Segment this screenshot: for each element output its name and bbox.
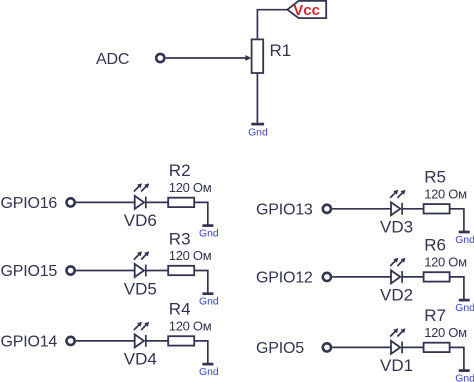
wire R6 to ground (450, 277, 464, 300)
svg-text:R2: R2 (169, 161, 191, 180)
svg-text:R7: R7 (424, 306, 446, 325)
resistor R2 (168, 198, 194, 207)
terminal GPIO13 (323, 205, 331, 213)
svg-text:GPIO14: GPIO14 (1, 334, 58, 351)
svg-text:VD6: VD6 (124, 211, 157, 230)
svg-text:120 Ом: 120 Ом (169, 248, 212, 263)
power flag Vcc (287, 1, 326, 18)
wire GPIO13 to VD3 (332, 208, 391, 210)
wire ADC terminal to R1 wiper (166, 57, 247, 59)
svg-text:ADC: ADC (96, 51, 129, 68)
wire GPIO15 to VD5 (76, 270, 135, 272)
ground for R4 (202, 363, 213, 366)
wire VD2 to R6 (402, 276, 424, 278)
svg-text:120 Ом: 120 Ом (169, 319, 212, 334)
svg-text:GPIO13: GPIO13 (256, 202, 313, 219)
wire R1 bottom to ground (256, 73, 258, 124)
terminal GPIO12 (323, 273, 331, 281)
wire VD3 to R5 (402, 208, 424, 210)
wire VD6 to R2 (146, 201, 168, 203)
LED VD4 (134, 322, 149, 348)
svg-text:R4: R4 (169, 300, 191, 319)
svg-text:R6: R6 (424, 236, 446, 255)
svg-text:Gnd: Gnd (199, 229, 219, 240)
svg-text:Vcc: Vcc (293, 2, 320, 19)
resistor R6 (424, 272, 450, 281)
wire R5 to ground (450, 209, 464, 232)
terminal ADC (156, 54, 164, 62)
LED VD5 (134, 251, 149, 277)
LED VD6 (134, 183, 149, 209)
svg-text:120 Ом: 120 Ом (169, 180, 212, 195)
resistor R4 (168, 336, 194, 345)
wire GPIO14 to VD4 (76, 340, 135, 342)
terminal GPIO16 (67, 198, 75, 206)
resistor R3 (168, 266, 194, 275)
svg-text:R1: R1 (270, 41, 292, 60)
LED VD2 (390, 258, 405, 284)
wiper arrowhead into R1 (245, 55, 251, 61)
svg-text:GPIO16: GPIO16 (1, 195, 58, 212)
svg-text:120 Ом: 120 Ом (424, 325, 467, 340)
wire R3 to ground (194, 271, 208, 294)
svg-text:Gnd: Gnd (455, 235, 474, 246)
svg-text:120 Ом: 120 Ом (424, 187, 467, 202)
resistor R7 (424, 343, 450, 352)
ground for R2 (202, 224, 213, 227)
wire GPIO12 to VD2 (332, 276, 391, 278)
svg-text:GPIO12: GPIO12 (256, 270, 313, 287)
ground for R5 (459, 231, 470, 234)
resistor R5 (424, 204, 450, 213)
svg-text:VD4: VD4 (124, 350, 157, 369)
svg-text:R5: R5 (424, 168, 446, 187)
ground for R3 (202, 292, 213, 295)
ground for R6 (459, 299, 470, 302)
terminal GPIO15 (67, 266, 75, 274)
wire R4 to ground (194, 341, 208, 364)
wire GPIO5 to VD1 (332, 346, 391, 348)
terminal GPIO5 (323, 343, 331, 351)
svg-text:Gnd: Gnd (248, 128, 268, 139)
terminal GPIO14 (67, 337, 75, 345)
svg-text:VD2: VD2 (380, 286, 413, 305)
svg-text:GPIO5: GPIO5 (256, 340, 304, 357)
svg-text:VD1: VD1 (380, 356, 413, 375)
svg-text:Gnd: Gnd (199, 297, 219, 308)
wire R7 to ground (450, 347, 464, 370)
svg-text:GPIO15: GPIO15 (1, 263, 58, 280)
svg-text:120 Ом: 120 Ом (424, 255, 467, 270)
wire R2 to ground (194, 202, 208, 225)
ground under R1 (251, 123, 264, 126)
svg-text:VD3: VD3 (380, 218, 413, 237)
svg-text:Gnd: Gnd (455, 303, 474, 314)
wire VD5 to R3 (146, 270, 168, 272)
LED VD1 (390, 328, 405, 354)
svg-text:Gnd: Gnd (455, 374, 474, 382)
wire VD4 to R4 (146, 340, 168, 342)
svg-text:VD5: VD5 (124, 279, 157, 298)
svg-text:R3: R3 (169, 229, 191, 248)
LED VD3 (390, 190, 405, 216)
svg-text:Gnd: Gnd (199, 367, 219, 378)
ground for R7 (459, 369, 470, 372)
wire R1 top to Vcc flag (257, 10, 287, 40)
potentiometer R1 body (252, 39, 264, 73)
wire VD1 to R7 (402, 346, 424, 348)
wire GPIO16 to VD6 (76, 201, 135, 203)
